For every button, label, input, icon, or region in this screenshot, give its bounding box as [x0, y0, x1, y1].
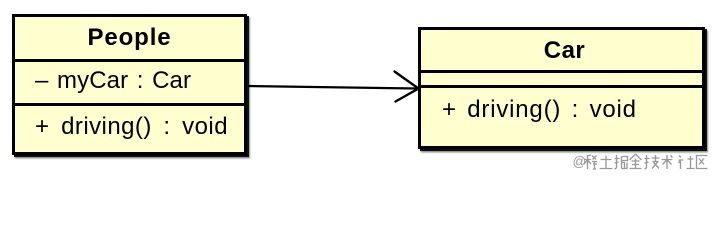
Car class name [424, 39, 705, 63]
tu (earth) [600, 156, 613, 169]
Car method: + driving() : void [442, 98, 637, 122]
class People [12, 14, 247, 155]
People class name [15, 26, 244, 50]
People attribute: - myCar : Car [35, 69, 191, 93]
open arrowhead [395, 72, 419, 102]
Car empty-attributes separator [418, 85, 705, 88]
ji (skill) [645, 155, 660, 169]
svg-text:@: @ [573, 154, 587, 169]
People method: + driving() : void [35, 115, 228, 139]
association arrow People -> Car [0, 0, 720, 176]
class Car [418, 27, 705, 149]
jin (gold) [630, 154, 642, 169]
shu (art) [662, 155, 673, 169]
jue (dig) [615, 155, 628, 169]
she (society) [679, 156, 695, 170]
xi (rare) [584, 155, 597, 169]
wire: association line [248, 86, 417, 89]
People attribute/method separator [12, 103, 247, 106]
watermark @juejin [0, 0, 720, 176]
People title separator [12, 59, 247, 62]
Car title separator [418, 70, 705, 73]
qu (district) [697, 156, 708, 169]
